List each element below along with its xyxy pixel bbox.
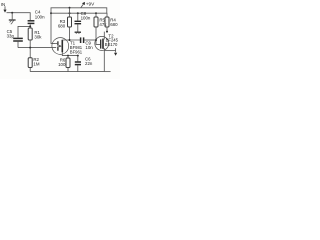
wire R3 top: [69, 8, 71, 17]
wire R1 to node B: [29, 40, 31, 48]
resistor R6: [66, 58, 70, 68]
capacitor C8: [75, 21, 82, 23]
wire input to C4: [7, 13, 31, 20]
wire C6 top: [77, 56, 79, 62]
svg-text:100n: 100n: [81, 16, 91, 21]
capacitor C4: [28, 21, 35, 24]
input terminal IN: [3, 6, 6, 12]
+9V arrow: [81, 2, 85, 8]
wire node B to R2: [29, 48, 31, 58]
wire C5 bottom: [17, 42, 19, 48]
svg-text:BS170: BS170: [105, 42, 118, 47]
wire R5 top: [95, 13, 97, 17]
junction line A at R3: [69, 7, 71, 9]
junction R3 top: [69, 12, 71, 14]
transistor T1 substrate arrow: [58, 45, 59, 47]
svg-text:680: 680: [58, 24, 66, 29]
wire G2 bias drop: [51, 13, 56, 43]
supply rail B: [51, 12, 107, 14]
capacitor C6: [75, 62, 81, 65]
ground rail: [30, 71, 104, 73]
ground bar below C8: [75, 31, 81, 33]
svg-text:100: 100: [58, 62, 66, 67]
junction C8 top: [77, 12, 79, 14]
wire C6 bottom: [77, 65, 79, 71]
resistor R2: [28, 58, 32, 68]
wire R4 top: [106, 13, 108, 17]
transistor T1 gate G2 lead: [56, 42, 58, 44]
+9V supply line A: [51, 8, 107, 13]
transistor T1 channel: [61, 40, 63, 52]
transistor T1 gate G1: [57, 47, 59, 51]
svg-text:100n: 100n: [35, 15, 45, 20]
capacitor C9: [81, 37, 84, 43]
wire C5 branch top: [18, 26, 30, 37]
junction node A: [29, 25, 31, 27]
output terminal: [114, 48, 117, 56]
wire R6 top: [67, 56, 69, 58]
svg-text:47k: 47k: [99, 22, 107, 27]
wire R2 to ground rail: [29, 68, 31, 72]
junction source-C8C6: [77, 55, 79, 57]
svg-text:BF961: BF961: [70, 50, 83, 55]
output wire: [104, 50, 115, 52]
resistor R1: [28, 28, 32, 40]
svg-text:+9V: +9V: [86, 1, 95, 6]
wire R6 bottom: [67, 68, 69, 72]
transistor T1 envelope: [52, 38, 69, 55]
junction source-R6: [67, 55, 69, 57]
junction T2 drain node: [106, 31, 108, 33]
transistor T1 gate G2: [57, 41, 59, 45]
transistor T2 gate bar: [100, 39, 102, 48]
wire to ground: [11, 13, 13, 20]
svg-text:22n: 22n: [85, 61, 93, 66]
resistor R5: [94, 17, 98, 27]
wire R4 to drain T2: [106, 27, 108, 32]
svg-text:1M: 1M: [33, 62, 39, 67]
wire C9 to T2 gate node: [84, 39, 96, 41]
transistor T2 source lead: [103, 49, 104, 72]
wire C8 top: [77, 13, 79, 20]
transistor T2 envelope: [95, 36, 109, 50]
resistor R4: [105, 17, 109, 27]
junction T2 gate node: [95, 39, 97, 41]
transistor T2 drain lead: [103, 32, 104, 39]
wire node B to gate G1: [18, 47, 56, 49]
ground: [9, 20, 16, 24]
rail end stub: [104, 71, 110, 73]
node B junction: [29, 47, 31, 49]
svg-text:33p: 33p: [7, 34, 15, 39]
svg-text:680: 680: [110, 22, 118, 27]
source wire T1: [62, 52, 78, 56]
svg-text:10n: 10n: [85, 45, 93, 50]
transistor T2 channel: [102, 39, 104, 49]
resistor R3: [68, 17, 72, 27]
drain node and wire: [62, 39, 80, 41]
wire R5 to T2 gate: [96, 27, 100, 44]
junction rail B left: [50, 12, 52, 14]
wire C8 to ground bar: [77, 24, 79, 31]
wire R3 to drain node: [69, 27, 71, 40]
wire C4 to node A: [29, 24, 31, 28]
svg-text:30k: 30k: [34, 34, 42, 39]
svg-text:IN: IN: [1, 2, 5, 7]
junction R5 top: [95, 12, 97, 14]
junction drain node: [69, 39, 71, 41]
node input-ground: [11, 12, 13, 14]
capacitor C5: [13, 38, 23, 41]
